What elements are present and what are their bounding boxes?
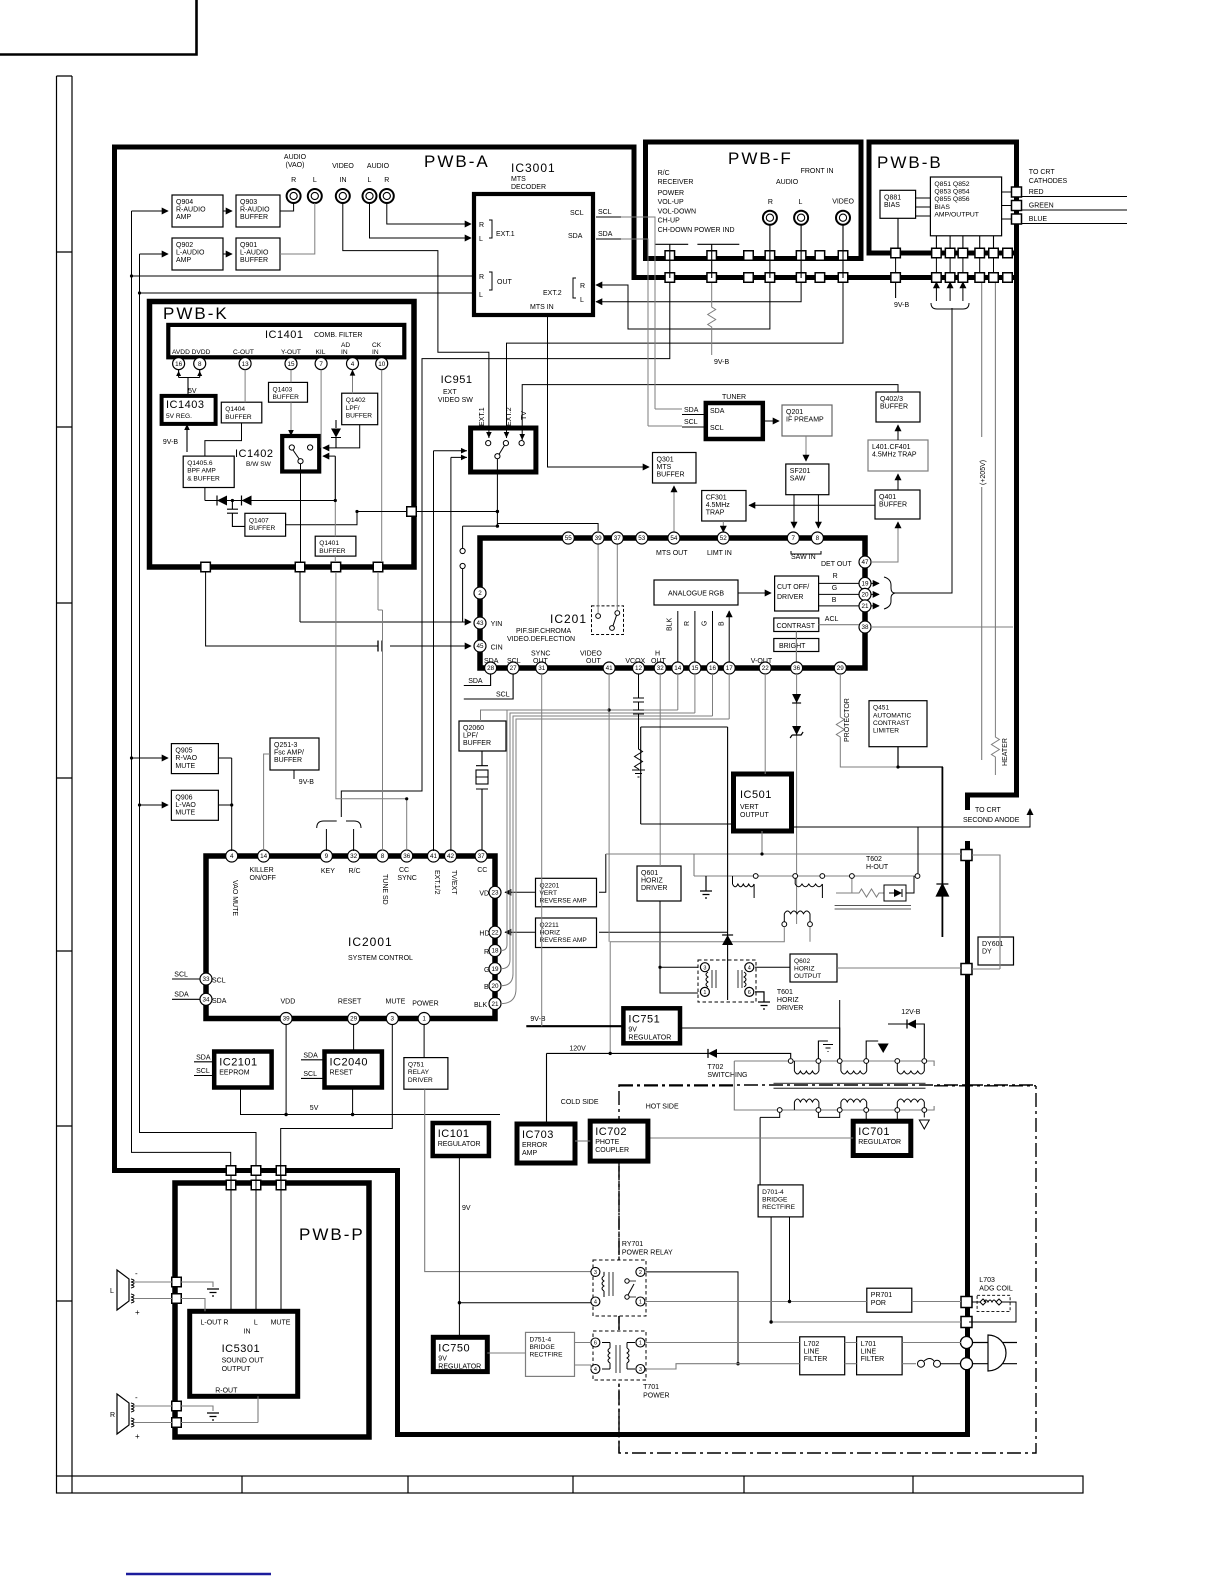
wire SCL/SDA from IC3001 to tuner: [621, 217, 682, 426]
svg-text:9V: 9V: [462, 1205, 471, 1212]
svg-text:L-AUDIO: L-AUDIO: [240, 250, 269, 257]
svg-text:DY: DY: [982, 949, 992, 956]
svg-text:IC2101: IC2101: [219, 1057, 257, 1069]
svg-text:BUFFER: BUFFER: [273, 394, 300, 401]
svg-text:4: 4: [594, 1300, 597, 1306]
svg-text:9V: 9V: [438, 1355, 447, 1362]
svg-text:6: 6: [748, 990, 751, 996]
svg-text:KEY: KEY: [321, 868, 335, 875]
IC201 pin 45: [474, 640, 486, 652]
svg-text:15: 15: [287, 361, 295, 368]
svg-text:BRIGHT: BRIGHT: [779, 643, 806, 650]
svg-text:3: 3: [594, 1270, 597, 1276]
T701 pin 3: [636, 1365, 645, 1374]
wire pin 36 V-OUT column with diodes: [790, 674, 803, 924]
svg-text:18: 18: [491, 948, 499, 955]
svg-text:Q2211: Q2211: [540, 922, 560, 929]
svg-text:AUDIO: AUDIO: [284, 154, 307, 161]
svg-text:RED: RED: [1029, 189, 1044, 196]
svg-text:SYNC: SYNC: [397, 875, 416, 882]
svg-text:IC751: IC751: [628, 1013, 660, 1025]
svg-text:BUFFER: BUFFER: [880, 404, 908, 411]
svg-text:VIDEO: VIDEO: [332, 163, 354, 170]
filter SF201 SAW: [786, 464, 829, 495]
svg-text:5V REG.: 5V REG.: [166, 413, 192, 420]
IC U2040 reset: [325, 1052, 382, 1088]
wire IC1402 lever to Y column: [300, 464, 302, 562]
front jack: [763, 211, 777, 225]
front jack: [836, 211, 850, 225]
IC201 pin 17: [723, 662, 735, 674]
node 9V-B (Q251-3): [294, 770, 314, 786]
IC2001 pin 18: [489, 945, 501, 957]
wires speaker L: [147, 1282, 213, 1311]
svg-text:EEPROM: EEPROM: [219, 1070, 250, 1077]
IC201 pin 38: [859, 621, 871, 633]
node SCL stub IC2001: [172, 972, 200, 980]
wire Q1402 to IC1402 switch arrow: [323, 425, 360, 448]
svg-text:8: 8: [816, 535, 820, 542]
svg-text:2: 2: [639, 1270, 642, 1276]
svg-text:L: L: [479, 292, 483, 299]
svg-text:R-AUDIO: R-AUDIO: [176, 207, 206, 214]
wire IC1402 second arrow: [323, 455, 335, 457]
wire Q901 to VAO L jack: [280, 203, 315, 254]
svg-text:VIDEO SW: VIDEO SW: [438, 397, 473, 404]
wire pin1 power to Q751: [423, 1025, 425, 1058]
heater resistor: [991, 700, 1009, 775]
hot/cold dashdot horizontal: [619, 1085, 1036, 1087]
limiter Q451 automatic contrast: [869, 701, 927, 747]
svg-text:Fsc AMP/: Fsc AMP/: [274, 750, 304, 757]
wire Q906 input: [140, 804, 169, 806]
svg-text:(VAO): (VAO): [286, 162, 305, 169]
svg-text:9V-B: 9V-B: [714, 359, 730, 366]
svg-text:L701: L701: [861, 1341, 877, 1348]
wire relay pin2 to AC line: [646, 1272, 738, 1364]
svg-text:BPF AMP: BPF AMP: [187, 468, 216, 475]
wires analogue rgb to pins 14-17: [678, 611, 729, 662]
T602 flyback structure: [606, 831, 961, 876]
svg-text:IC501: IC501: [740, 789, 772, 801]
wire contrast/bright to pin 36: [795, 632, 797, 663]
svg-text:SECOND ANODE: SECOND ANODE: [963, 817, 1020, 824]
transistor Q602 horiz output: [790, 954, 837, 982]
svg-text:REGULATOR: REGULATOR: [858, 1139, 901, 1146]
svg-text:SCL: SCL: [212, 978, 226, 985]
node 9V-B label below PWB-B: [894, 282, 910, 309]
svg-text:39: 39: [283, 1016, 291, 1023]
svg-text:SDA: SDA: [303, 1053, 318, 1060]
svg-text:TRAP: TRAP: [706, 510, 725, 517]
svg-text:9V-B: 9V-B: [163, 439, 179, 446]
svg-text:MTS: MTS: [511, 176, 526, 183]
svg-text:MTS IN: MTS IN: [530, 304, 554, 311]
wire Q902 input from L column: [140, 253, 169, 255]
svg-text:LINE: LINE: [861, 1348, 877, 1355]
diode yoke DY601: [978, 937, 1014, 965]
junction circles right border (AC line): [961, 1337, 973, 1370]
wire Q2201 to pin 23: [505, 891, 536, 893]
IC201 pin 47: [859, 556, 871, 568]
svg-text:COMB. FILTER: COMB. FILTER: [314, 332, 362, 339]
wire EXT2 rl lines right of IC3001: [592, 285, 594, 302]
svg-text:YIN: YIN: [491, 621, 503, 628]
svg-text:Q402/3: Q402/3: [880, 396, 903, 403]
svg-text:AD: AD: [341, 342, 350, 349]
svg-text:DET OUT: DET OUT: [821, 561, 852, 568]
svg-text:DRIVER: DRIVER: [777, 1005, 803, 1012]
svg-text:CK: CK: [372, 342, 382, 349]
wire pin31 column to 9V-B: [541, 674, 543, 1026]
svg-text:R: R: [580, 283, 585, 290]
svg-text:R: R: [291, 177, 296, 184]
node SDA (tuner): [682, 407, 706, 415]
svg-text:Q2060: Q2060: [463, 725, 484, 732]
svg-text:VOL-UP: VOL-UP: [658, 199, 684, 206]
svg-text:2: 2: [478, 590, 482, 597]
svg-text:PWB-P: PWB-P: [299, 1225, 365, 1244]
svg-text:+: +: [135, 1308, 140, 1317]
svg-text:BIAS: BIAS: [884, 202, 900, 209]
tuner block: [706, 394, 763, 439]
IC U2001 system control: [206, 856, 495, 1019]
svg-text:IC2001: IC2001: [348, 935, 393, 949]
node SDA stub IC2101: [194, 1055, 214, 1062]
grounds above T702: [818, 1041, 878, 1059]
svg-text:AUDIO: AUDIO: [367, 163, 390, 170]
T602 core lines: [835, 906, 911, 910]
svg-text:BLUE: BLUE: [1029, 216, 1048, 223]
svg-text:41: 41: [606, 665, 614, 672]
svg-text:22: 22: [762, 665, 770, 672]
svg-text:IN: IN: [341, 349, 348, 356]
svg-text:-: -: [135, 1393, 138, 1402]
IC2001 pin 3: [386, 1013, 398, 1025]
svg-text:HORIZ: HORIZ: [641, 878, 664, 885]
svg-text:1: 1: [703, 990, 706, 996]
svg-text:1: 1: [639, 1300, 642, 1306]
svg-text:VERT: VERT: [740, 804, 759, 811]
svg-text:AUDIO: AUDIO: [776, 179, 799, 186]
svg-text:ERROR: ERROR: [522, 1142, 547, 1149]
svg-text:AVDD DVDD: AVDD DVDD: [172, 349, 211, 356]
svg-text:CH-DOWN POWER IND: CH-DOWN POWER IND: [658, 227, 735, 234]
wire IC701 feeds: [866, 1120, 897, 1123]
AC plug: [972, 1335, 1017, 1371]
svg-text:36: 36: [403, 853, 411, 860]
svg-text:FILTER: FILTER: [861, 1356, 885, 1363]
wire MTS IN from IC3001 to Q301: [548, 315, 650, 467]
svg-text:SDA: SDA: [174, 992, 189, 999]
svg-text:32: 32: [657, 665, 665, 672]
svg-text:BUFFER: BUFFER: [879, 502, 907, 509]
svg-text:IC2040: IC2040: [330, 1057, 368, 1069]
svg-text:SDA: SDA: [568, 233, 583, 240]
junction squares right border: [961, 850, 972, 1328]
svg-text:SDA: SDA: [598, 231, 613, 238]
svg-text:REGULATOR: REGULATOR: [438, 1141, 481, 1148]
svg-text:EXT.1: EXT.1: [479, 407, 486, 426]
T601 pin 4: [745, 963, 754, 972]
transistor Q903: [236, 195, 280, 227]
wire Q301 to IC201 pin 54: [673, 486, 675, 538]
key switch symbols PWB-F: [655, 225, 844, 278]
IC2001 pin 33: [200, 973, 212, 985]
svg-text:D751-4: D751-4: [530, 1336, 552, 1343]
svg-text:Q602: Q602: [794, 958, 810, 965]
svg-text:EXT.1/2: EXT.1/2: [433, 870, 440, 895]
IC U3001 MTS decoder: [474, 161, 593, 315]
IC2001 pin 39: [280, 1013, 292, 1025]
svg-text:Q2201: Q2201: [540, 882, 560, 889]
IC2001 pin 34: [200, 993, 212, 1005]
svg-text:B: B: [484, 984, 489, 991]
wire 9V-B label stub top-left of IC751: [541, 1022, 543, 1026]
svg-text:VIDEO: VIDEO: [832, 199, 854, 206]
svg-text:IN: IN: [372, 349, 379, 356]
IC201 pin 43: [474, 617, 486, 629]
svg-text:IC5301: IC5301: [222, 1343, 260, 1355]
wire Q903 to VAO R jack: [280, 203, 294, 211]
IC201 pin 53: [636, 532, 648, 544]
svg-text:19: 19: [491, 966, 499, 973]
transistor Q2201 vert reverse amp: [536, 878, 597, 907]
svg-text:MTS OUT: MTS OUT: [656, 550, 688, 557]
svg-text:PWB-F: PWB-F: [728, 149, 793, 168]
wire relay pin1 to PR701: [646, 1301, 867, 1303]
IC1401 pin 13: [239, 358, 251, 370]
node GREEN wire: [1021, 209, 1127, 211]
labels TO CRT CATHODES: [1029, 169, 1068, 223]
svg-text:T602: T602: [866, 856, 882, 863]
IC501 text: [740, 789, 772, 819]
svg-text:CUT OFF/: CUT OFF/: [777, 584, 809, 591]
svg-text:EXT.2: EXT.2: [506, 407, 513, 426]
svg-text:12V-B: 12V-B: [901, 1009, 920, 1016]
left ruler strip: [57, 76, 73, 1476]
svg-text:PWB-K: PWB-K: [163, 304, 229, 323]
transistor Q1403 buffer: [269, 382, 308, 402]
svg-text:MUTE: MUTE: [386, 999, 406, 1006]
svg-text:+: +: [135, 1432, 140, 1441]
svg-text:DRIVER: DRIVER: [777, 594, 803, 601]
svg-text:T601: T601: [777, 989, 793, 996]
diodes D701-4 bridge rectifier: [758, 1185, 803, 1217]
svg-text:IF PREAMP: IF PREAMP: [786, 417, 824, 424]
svg-text:D701-4: D701-4: [762, 1189, 784, 1196]
svg-text:Q751: Q751: [408, 1062, 424, 1069]
svg-text:R/C: R/C: [658, 170, 670, 177]
wire T701 to L702: [646, 1343, 800, 1370]
svg-text:HD: HD: [479, 931, 489, 938]
transistor Q902: [172, 238, 223, 270]
svg-text:REGULATOR: REGULATOR: [628, 1034, 671, 1041]
svg-text:7: 7: [319, 361, 323, 368]
svg-text:FILTER: FILTER: [804, 1356, 828, 1363]
wire Q904 to Q903: [223, 210, 232, 212]
svg-text:SYSTEM CONTROL: SYSTEM CONTROL: [348, 955, 413, 962]
svg-text:23: 23: [491, 890, 499, 897]
wire protector vertical x727 with diode: [641, 727, 733, 1000]
IC U1403 5V regulator: [162, 396, 216, 424]
svg-text:22: 22: [491, 929, 499, 936]
svg-text:Q902: Q902: [176, 242, 193, 249]
wire pin29 reset to IC2040: [353, 1025, 355, 1052]
svg-text:OUT: OUT: [586, 658, 602, 665]
svg-text:POWER: POWER: [412, 1001, 438, 1008]
IC2001 pin 19: [489, 963, 501, 975]
transistor Q1407 buffer: [245, 513, 286, 536]
IC U5301 sound output: [190, 1311, 298, 1396]
diodes D1405 pair: [205, 456, 335, 505]
wire PR701 to border square: [912, 1301, 961, 1303]
svg-text:31: 31: [538, 665, 546, 672]
node 5V (PWB-K): [176, 370, 202, 396]
svg-text:IC1402: IC1402: [235, 448, 273, 460]
T701 pin 4: [591, 1365, 600, 1374]
bright box: [774, 639, 819, 652]
wire Q2211 to pin 22: [505, 931, 536, 933]
svg-text:SYNC: SYNC: [531, 651, 550, 658]
wire pin3 mute route: [281, 1025, 393, 1181]
wire L702 to L701: [845, 1343, 857, 1364]
svg-text:IN: IN: [244, 1328, 251, 1335]
svg-text:Q1407: Q1407: [249, 517, 269, 524]
svg-text:G: G: [832, 585, 837, 592]
svg-text:21: 21: [491, 1001, 499, 1008]
svg-text:FRONT IN: FRONT IN: [801, 168, 834, 175]
svg-text:Q851 Q852: Q851 Q852: [934, 181, 969, 188]
IC1401 pin 15: [285, 358, 297, 370]
svg-text:9V-B: 9V-B: [530, 1016, 546, 1023]
wire L701 to plug with fuse: [902, 1343, 961, 1364]
IC201 pin 55: [562, 532, 574, 544]
T602 label: [866, 856, 889, 871]
svg-text:G: G: [701, 621, 708, 626]
svg-text:B: B: [719, 621, 726, 626]
svg-text:DECODER: DECODER: [511, 184, 546, 191]
svg-text:RY701: RY701: [622, 1241, 643, 1248]
wire second anode vertical with diode: [941, 767, 943, 937]
svg-text:37: 37: [614, 535, 622, 542]
T601 pin 6: [745, 987, 754, 996]
svg-text:32: 32: [350, 853, 358, 860]
node SDA stub IC2040: [301, 1053, 325, 1060]
svg-text:SCL: SCL: [303, 1071, 317, 1078]
svg-text:KILLER: KILLER: [250, 867, 274, 874]
analogue RGB box: [654, 580, 738, 605]
node TO CRT SECOND ANODE: [641, 807, 1034, 873]
transistor Q201 IF preamp: [782, 405, 832, 436]
svg-text:Q601: Q601: [641, 870, 658, 877]
transformer T701 power: [593, 1331, 670, 1400]
PWB-B board box: [869, 142, 1017, 253]
wire analogue rgb to cut off: [738, 592, 771, 594]
transistor Q1404 buffer: [221, 402, 261, 423]
svg-text:BIAS: BIAS: [934, 204, 950, 211]
svg-text:R: R: [484, 949, 489, 956]
ground (T601): [755, 992, 770, 1009]
wire Y to YIN pin 43: [300, 572, 463, 622]
wire front video to IC951 EXT2: [507, 283, 844, 438]
svg-text:AUTOMATIC: AUTOMATIC: [873, 712, 911, 719]
svg-text:IC201: IC201: [550, 612, 587, 626]
svg-text:Y-OUT: Y-OUT: [281, 349, 301, 356]
svg-text:L401.CF401: L401.CF401: [872, 444, 911, 451]
transistor Q1401 buffer: [315, 536, 356, 556]
wire T701 to D751-4: [487, 1343, 591, 1370]
wire pin 38 ACL: [819, 625, 1013, 627]
svg-text:BUFFER: BUFFER: [346, 412, 373, 419]
svg-text:& BUFFER: & BUFFER: [187, 475, 220, 482]
IC201 pin 31: [536, 662, 548, 674]
svg-text:CC: CC: [477, 867, 487, 874]
svg-text:13: 13: [242, 361, 250, 368]
svg-text:Q853 Q854: Q853 Q854: [934, 189, 969, 196]
svg-text:HORIZ: HORIZ: [540, 930, 561, 937]
svg-text:BUFFER: BUFFER: [249, 525, 276, 532]
transistor Q2060 LPF buffer: [459, 721, 506, 751]
svg-text:SF201: SF201: [790, 468, 811, 475]
svg-text:L: L: [254, 1320, 258, 1327]
svg-text:H: H: [655, 651, 660, 658]
wire IC702 to IC701: [648, 1137, 853, 1139]
node SCL stub IC201: [464, 674, 513, 699]
wire Q451 bottom: [898, 747, 942, 937]
junction squares PWB-K bottom edge: [201, 562, 383, 572]
wire Q602 to right border square: [837, 967, 961, 969]
junction squares PWB-A top border row: [665, 273, 1012, 283]
svg-text:PR701: PR701: [871, 1292, 893, 1299]
svg-text:R: R: [479, 274, 484, 281]
svg-text:MUTE: MUTE: [271, 1320, 291, 1327]
svg-text:39: 39: [595, 535, 603, 542]
wire R OUT from IC3001 to R column: [132, 211, 475, 1166]
IC201 pin 54: [668, 532, 680, 544]
wire tuner to Q201: [763, 420, 779, 422]
svg-text:5V: 5V: [310, 1105, 319, 1112]
coil L703 ADG: [969, 1277, 1016, 1322]
svg-text:Q1405.6: Q1405.6: [187, 460, 213, 467]
transistors Q1405.6 BPF amp: [183, 456, 234, 487]
junction squares PWB-P left edge (speakers): [172, 1277, 182, 1427]
wire video in jack to IC951 EXT1: [343, 203, 489, 438]
node RED wire: [1021, 196, 1127, 198]
transistor Q904: [172, 195, 223, 227]
RY701 pin 1: [636, 1297, 645, 1306]
svg-text:RESET: RESET: [338, 999, 362, 1006]
IC201 pin 20: [859, 588, 871, 600]
IC2001 pin 41: [428, 850, 440, 862]
IC201 pin 2: [474, 587, 486, 599]
svg-text:Q903: Q903: [240, 199, 257, 206]
wire pin 22 to IC501: [764, 674, 766, 774]
IC2001 pin 9: [320, 850, 332, 862]
svg-text:SDA: SDA: [468, 678, 483, 685]
svg-text:TO CRT: TO CRT: [975, 807, 1002, 814]
svg-text:SCL: SCL: [174, 972, 188, 979]
svg-text:REVERSE AMP: REVERSE AMP: [540, 898, 588, 905]
wires Q881 to Q851-6: [916, 198, 931, 216]
svg-text:Q1403: Q1403: [273, 386, 293, 393]
title block corner (top-left): [0, 0, 197, 55]
svg-text:BLK: BLK: [667, 617, 674, 631]
wire 120V to IC703: [546, 1123, 548, 1125]
diode D602: [936, 884, 948, 896]
svg-text:14: 14: [674, 665, 682, 672]
cut off driver box: [775, 576, 819, 611]
